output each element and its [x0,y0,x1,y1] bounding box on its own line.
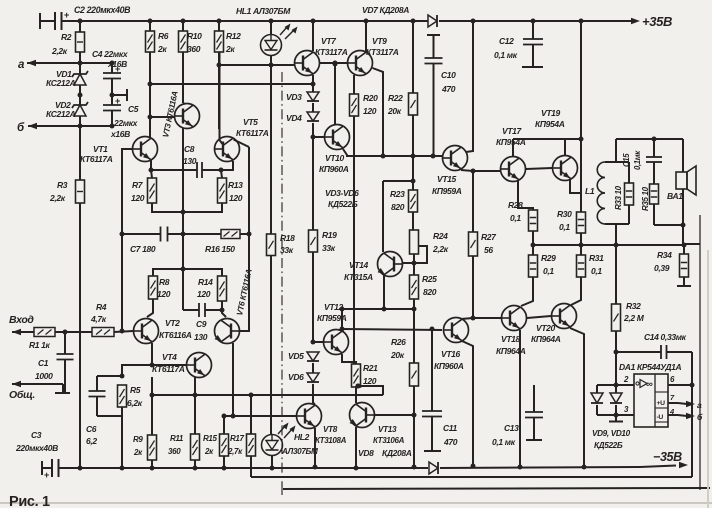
capacitor C9 [183,309,199,311]
node b terminal [28,123,37,129]
svg-text:х16В: х16В [107,59,127,69]
svg-text:R23: R23 [390,189,405,199]
wire R29 to VT18 [521,277,533,306]
svg-text:VD8: VD8 [358,448,374,458]
svg-text:0,1: 0,1 [559,222,570,232]
svg-text:120: 120 [229,193,243,203]
wire VT9 collector [364,19,369,24]
wire pin6 feedback down [691,385,693,477]
wire mid stub [112,94,127,96]
resistor R7 [148,178,157,203]
transistor VT4 [187,353,212,378]
node +35V arrow [581,20,637,22]
svg-text:ВА1: ВА1 [667,191,683,201]
diode VD3 [307,92,319,101]
wire VT3 collector [183,103,185,104]
wire VT5 collector to x249 [234,140,250,148]
svg-text:+: + [64,10,69,20]
wire R27 to VT16 gate node [472,256,474,318]
svg-text:0,1: 0,1 [543,266,554,276]
wire VT5 emitter to R13 [221,161,233,170]
wire x249 column [248,147,250,325]
wire x249 to VT6 base [240,325,249,331]
wire feedback y395 [152,394,383,396]
wire VT19 drain [564,139,566,156]
resistor R30 [577,212,586,233]
resistor R3 [79,126,81,180]
svg-text:Рис. 1: Рис. 1 [9,494,50,508]
svg-text:КТ6117А: КТ6117А [80,154,113,164]
resistor R2 [78,19,83,24]
svg-text:C15: C15 [622,153,631,167]
svg-text:20к: 20к [390,350,405,360]
svg-text:820: 820 [391,202,405,212]
svg-text:33к: 33к [322,243,336,253]
wire R5C6 bottom [97,415,122,417]
svg-text:R7: R7 [132,180,144,190]
svg-text:R16 150: R16 150 [205,244,235,254]
wire input node [55,331,92,333]
svg-text:0,1мк: 0,1мк [633,150,642,170]
svg-text:0,1 мк: 0,1 мк [494,50,518,60]
svg-text:VT13: VT13 [378,425,397,434]
svg-text:R5: R5 [130,385,141,395]
transistor VT9 [348,51,373,76]
wire drain rail y139 [513,138,581,140]
wire VT1 emitter to R7 [150,160,152,170]
svg-text:VT18: VT18 [501,334,521,344]
wire R31 to VT20 [571,277,581,305]
svg-text:HL2: HL2 [294,432,310,442]
diode VD6 [307,373,319,382]
resistor R9 [148,435,157,460]
capacitor C13 [533,385,535,412]
wire VT13 emitter [355,427,357,468]
wire right vertical [699,215,701,490]
node a terminal [27,60,36,66]
wire R5C6 top [97,375,122,377]
svg-text:R1 1к: R1 1к [29,340,51,350]
wire R22 down [412,115,414,156]
wire VT10 emitter to VT15 base [343,149,442,156]
resistor R34 [683,245,685,254]
svg-text:R4: R4 [96,302,107,312]
svg-text:КТ6116А: КТ6116А [159,330,192,340]
resistor R29 [529,255,538,277]
svg-text:VT15: VT15 [437,174,457,184]
svg-text:470: 470 [441,84,456,94]
wire VT2 emitter node [151,343,153,365]
wire VT14 collector riser [412,181,414,191]
wire rail to VT15 collector [466,21,473,152]
svg-text:C1: C1 [38,358,49,368]
resistor R31 [577,255,586,277]
diode VD8 [429,462,438,474]
svg-text:КП954А: КП954А [535,119,565,129]
inductor L1 [615,159,617,162]
svg-text:2: 2 [623,375,629,384]
svg-text:Вход: Вход [9,314,34,326]
wire VT4 emitter to R11 [194,377,196,434]
svg-text:R34: R34 [657,250,672,260]
resistor R22 [411,19,416,24]
wire VT13 collector [355,387,357,403]
svg-text:VT14: VT14 [349,260,369,270]
svg-text:VT19: VT19 [541,108,561,118]
svg-text:4,7к: 4,7к [90,314,107,324]
diode VD4 [307,112,319,121]
wire VT18-VT20 gate link [527,316,551,318]
svg-text:+: + [44,470,49,480]
svg-text:R29: R29 [541,253,556,263]
svg-text:20к: 20к [387,106,402,116]
resistor R14 [218,276,227,301]
wire long bottom line [283,488,710,489]
wire VT12 emitter to R21 [342,354,356,364]
wire VD5-VD6 [312,363,314,373]
resistor R21 [352,364,361,387]
wire VD3-VD4 [312,103,314,112]
wire VT14 base [403,262,415,264]
transistor VT16 [444,318,469,343]
wire R26 to rail [413,386,415,467]
transistor VT19 [553,156,578,181]
wire R18 to HL2 [270,256,272,435]
svg-text:VT8: VT8 [323,425,338,434]
resistor R27 [472,171,474,232]
svg-text:2,2к: 2,2к [51,46,68,56]
capacitor C2 [39,13,41,29]
transistor VT20 [552,304,577,329]
svg-text:1000: 1000 [35,371,53,381]
capacitor C3 [41,461,43,475]
svg-text:а: а [18,59,25,71]
resistor R1 [34,328,55,337]
svg-text:120: 120 [363,106,377,116]
wire R19 down to VT12 base [312,252,314,342]
svg-text:С6: С6 [86,424,97,434]
wire emitter join y212 [152,203,222,212]
svg-text:R30: R30 [557,209,572,219]
svg-text:КП964А: КП964А [496,346,526,356]
svg-text:360: 360 [168,447,181,456]
svg-text:L1: L1 [585,186,595,196]
svg-text:C11: C11 [443,423,458,433]
wire VT12 base [313,341,323,343]
svg-text:R22: R22 [388,93,403,103]
transistor VT17 [501,157,526,182]
svg-text:КТ315А: КТ315А [344,272,373,282]
svg-text:VT2: VT2 [165,318,180,328]
wire VT13 base to R26 column [375,414,414,416]
svg-text:VD9, VD10: VD9, VD10 [592,429,631,438]
transistor VT7 [295,51,320,76]
svg-text:130: 130 [183,156,197,166]
wire R24-R25 [413,254,415,275]
svg-text:R10: R10 [187,31,202,41]
svg-text:VT1: VT1 [93,144,108,154]
svg-text:0,1: 0,1 [510,213,521,223]
resistor R19 [309,230,318,252]
wire y234 left [122,233,160,235]
wire VT12 collector [341,309,343,330]
svg-text:б: б [697,412,703,422]
wire y269 split [153,269,222,276]
wire y309 [342,308,414,310]
resistor R15 [223,416,225,434]
wire VT15 emitter [461,170,501,171]
wire R30 to output [580,233,582,245]
svg-text:+U: +U [657,400,666,407]
resistor R4 [92,328,114,337]
svg-text:VT16: VT16 [441,349,461,359]
svg-text:VT9: VT9 [372,36,387,46]
svg-text:120: 120 [157,289,171,299]
svg-text:VT20: VT20 [536,323,556,333]
svg-text:-U: -U [657,414,664,421]
svg-text:R33 10: R33 10 [614,185,623,210]
svg-text:0,1: 0,1 [591,266,602,276]
svg-text:R2: R2 [61,32,72,42]
svg-text:3: 3 [624,405,629,414]
svg-text:HL1 АЛ307БМ: HL1 АЛ307БМ [236,6,291,16]
wire R5 to rail [121,416,123,468]
svg-text:R28: R28 [508,200,523,210]
svg-text:R19: R19 [322,230,337,240]
capacitor C7 [160,227,162,242]
wire R23-R24 node [412,212,414,230]
resistor R24 trimmer [410,230,419,254]
wire R4 to VT2 [114,331,133,332]
resistor R25 [410,275,419,299]
wire R12 to VT5 base [219,52,221,140]
wire VT2 emitter to R9 [151,377,153,435]
wire rail right segment [439,20,581,22]
transistor VT14 [378,252,403,277]
transistor VT15 [443,146,468,171]
wire VT7 emitter to VD3 [312,75,314,92]
svg-text:VT5: VT5 [243,117,258,127]
wire R25 to y309 [413,299,415,309]
wire R20 to R21 column [353,116,355,364]
wire C7 to R16 [168,233,221,235]
svg-text:КД522Б: КД522Б [594,441,623,450]
wire VT8 emitter [314,428,316,467]
wire R32 down to DA1 [615,331,617,385]
resistor R6 [148,19,153,24]
zener VD1 [79,63,81,74]
capacitor C8 [151,169,197,171]
svg-text:VD7 КД208А: VD7 КД208А [362,5,409,15]
svg-text:КТ3108А: КТ3108А [315,436,347,445]
svg-text:б: б [17,122,25,134]
svg-text:C12: C12 [499,36,514,46]
svg-text:КП959А: КП959А [432,186,462,196]
frame bottom [0,502,712,504]
diode VD5 [307,352,319,361]
resistor R33 [616,161,629,163]
transistor VT2 [134,319,159,344]
wire HL2 to rail [271,456,273,469]
wire output to L1 node [615,225,617,245]
wire VT10 base [313,136,324,138]
svg-text:130: 130 [194,332,208,342]
wire VT7-VT9 link [320,62,348,64]
svg-text:КТ6117А: КТ6117А [236,128,269,138]
wire VT16 drain to VT18 gate [461,318,473,319]
svg-text:VT3 КТ6116А: VT3 КТ6116А [161,90,180,138]
transistor VT13 [350,403,375,428]
svg-text:∞: ∞ [646,379,653,390]
node common Obshch [12,381,21,387]
svg-text:КТ3106А: КТ3106А [373,436,405,445]
svg-text:КД208А: КД208А [382,448,412,458]
wire VT7 collector [311,19,316,24]
transistor VT10 [325,125,350,150]
svg-text:22мкх: 22мкх [113,118,139,128]
capacitor C10 [427,34,440,36]
resistor R32 [615,245,617,304]
svg-text:КП964А: КП964А [531,334,561,344]
wire zobel top line [616,138,683,140]
svg-text:КП960А: КП960А [319,164,349,174]
svg-text:C8: C8 [184,144,195,154]
wire R8 to VT2 collector [147,299,153,317]
svg-text:R9: R9 [133,435,143,444]
transistor VT5 [215,137,240,162]
svg-text:R26: R26 [391,337,406,347]
wire L1 top riser [615,139,617,159]
transistor VT18 [502,306,527,331]
svg-text:6,2: 6,2 [86,436,97,446]
svg-text:R35 10: R35 10 [641,186,650,211]
resistor R11 [191,434,200,460]
wire +35V rail [62,20,429,22]
svg-text:C13: C13 [504,423,519,433]
svg-text:DA1 КР544УД1А: DA1 КР544УД1А [619,362,682,372]
resistor R10 [181,19,186,24]
resistor R13 [218,178,227,203]
svg-text:C2 220мкх40В: C2 220мкх40В [74,5,131,15]
svg-text:R17: R17 [230,434,245,443]
svg-text:Общ.: Общ. [9,389,35,401]
wire VT9 emitter to R20 [353,75,355,94]
resistor R26 [413,309,415,363]
diode VD10 [615,385,617,393]
wire VD9 VD10 bottom to pin3 [597,414,634,416]
diode VD9 [597,384,616,386]
node -35V arrow [640,466,676,468]
wire HL1 to VT7 base [270,56,272,66]
wire rail drop to R30 [580,139,582,212]
svg-text:R32: R32 [626,301,641,311]
wire +35V drop to output stage [580,21,582,139]
svg-text:C3: C3 [31,430,42,440]
svg-text:АЛ307БМ: АЛ307БМ [281,447,318,456]
svg-text:2,2к: 2,2к [49,193,66,203]
capacitor C12 [531,19,536,24]
capacitor C11 [431,329,433,411]
svg-text:C7 180: C7 180 [130,244,156,254]
diode VD7 [428,15,437,27]
wire VT18 source down [519,330,521,467]
svg-text:6,2к: 6,2к [127,398,143,408]
wire R14 to VT6 collector [222,301,226,317]
wire VT3 base tap [150,116,175,118]
svg-text:VT4: VT4 [162,352,177,362]
svg-text:2,2к: 2,2к [432,244,449,254]
wire -35V rail [59,467,429,469]
wire DA1 pin7 output a [668,402,678,404]
svg-text:120: 120 [363,376,377,386]
svg-text:R12: R12 [226,31,241,41]
resistor R23 [412,157,414,181]
wire VT8 base line y416 [224,415,297,417]
wire VT10 drain up [334,64,336,125]
wire VT9 emitter right leg [373,68,384,156]
svg-text:0,1 мк: 0,1 мк [492,437,516,447]
svg-text:R27: R27 [481,232,497,242]
wire C14 right down to pin6 [691,352,693,385]
svg-text:VD3: VD3 [286,92,302,102]
resistor R18 [267,234,276,256]
capacitor C6 [96,376,98,391]
svg-text:VT6 КТ6116А: VT6 КТ6116А [235,268,254,316]
svg-text:C14 0,33мк: C14 0,33мк [644,332,687,342]
svg-text:VT7: VT7 [321,36,337,46]
wire speaker bottom [682,189,684,245]
svg-text:2к: 2к [157,44,167,54]
capacitor C5 [111,95,113,105]
wire VT14 emitter [383,275,385,309]
resistor R28 [529,210,538,231]
svg-text:360: 360 [187,44,201,54]
wire R17 to feedback line [250,456,252,477]
wire DA1 pin6 [668,384,692,386]
svg-text:VD4: VD4 [286,113,302,123]
svg-text:R15: R15 [203,434,218,443]
resistor R20 [350,94,359,116]
LED HL1 [269,19,274,24]
svg-text:C10: C10 [441,70,456,80]
wire feedback line y477 [251,476,692,478]
svg-text:2к: 2к [225,44,235,54]
wire DA1 pin4 output b [668,414,678,416]
svg-text:2,7к: 2,7к [227,447,243,456]
wire bias y84 [150,83,313,85]
capacitor C15 [653,139,655,157]
resistor R5 [118,385,127,407]
resistor R17 [250,395,252,434]
svg-text:VD5: VD5 [288,351,304,361]
zener VD2 [74,105,86,116]
wire VT19 source to R30 [570,179,581,193]
wire R28 to output [532,231,534,245]
svg-text:R20: R20 [363,93,378,103]
wire VT6 emitter down [232,343,234,416]
svg-text:R21: R21 [363,363,378,373]
svg-text:2,2 М: 2,2 М [623,313,645,323]
transistor VT1 [133,137,158,162]
resistor R16 [221,230,240,239]
svg-text:2к: 2к [133,448,143,457]
svg-text:R24: R24 [433,231,448,241]
wire R16 right [240,233,249,235]
wire VT4 base [152,364,187,366]
wire VT2 emitter branch to R5C6 [122,365,152,376]
wire y395 right elbow [358,386,383,395]
svg-text:0,39: 0,39 [654,263,670,273]
